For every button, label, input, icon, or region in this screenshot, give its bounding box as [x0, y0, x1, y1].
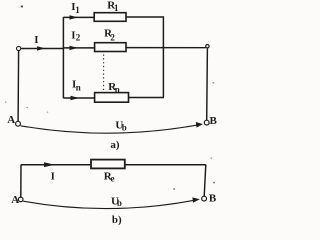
- wire: left vertical bus (diagram a): [62, 17, 64, 98]
- wire: branch 1 left segment with current arrow I1: [63, 15, 94, 19]
- svg-text:A: A: [7, 114, 15, 126]
- label A (diagram b): [11, 194, 19, 206]
- label I (diagram a): [34, 34, 38, 46]
- svg-text:I: I: [51, 170, 55, 182]
- svg-text:I: I: [34, 34, 38, 46]
- wire: branch 1 right segment to right bus: [126, 16, 164, 18]
- label B (diagram b): [209, 193, 217, 205]
- label In: [72, 78, 81, 92]
- label Ub (diagram b): [111, 195, 122, 208]
- wire: top conductor with current arrow I (diagram b): [21, 162, 91, 167]
- wire: left rail from input terminal down to node A: [17, 51, 20, 122]
- wire: left rail down to node A (diagram b): [20, 165, 22, 197]
- label I1: [71, 1, 80, 15]
- scan speck: [27, 107, 29, 108]
- wire: branch n left segment with current arrow In: [63, 96, 94, 100]
- node A (diagram b): [18, 197, 23, 202]
- label B (diagram a): [210, 115, 218, 127]
- wire: input terminal to left bus with current arrow I (diagram a): [21, 46, 64, 50]
- svg-text:e: e: [111, 173, 115, 183]
- resistor Re: [91, 160, 125, 169]
- dotted continuation line between R2 and Rn: [103, 55, 105, 92]
- wire: resistor Re to right corner (diagram b): [125, 164, 206, 166]
- scan speck: [173, 188, 175, 190]
- voltage arc Ub from A to B (diagram a): [21, 122, 203, 133]
- svg-text:2: 2: [76, 33, 81, 43]
- wire: branch 2 right segment through bus to top of node B rail: [126, 47, 206, 49]
- wire: right vertical bus (diagram a): [162, 16, 164, 97]
- node B (diagram a): [204, 120, 209, 125]
- svg-text:b): b): [112, 214, 122, 226]
- wire: right rail from junction down to node B: [206, 48, 209, 120]
- label R2: [104, 28, 115, 43]
- terminal node (diagram a, top-left input): [17, 46, 21, 50]
- scan speck: [213, 182, 215, 184]
- svg-text:B: B: [210, 115, 218, 127]
- svg-text:n: n: [115, 84, 120, 94]
- svg-text:2: 2: [110, 33, 115, 43]
- junction node (diagram a, top of right rail): [206, 45, 209, 48]
- scan speck: [5, 102, 7, 103]
- label A (diagram a): [7, 114, 15, 126]
- label Rn: [108, 81, 120, 94]
- svg-text:b: b: [122, 123, 127, 133]
- wire: branch 2 left segment with current arrow I2: [63, 46, 94, 50]
- label Re: [104, 170, 115, 183]
- resistor R1: [94, 13, 126, 22]
- svg-text:B: B: [209, 193, 217, 205]
- caption a): [110, 139, 120, 151]
- resistor Rn: [95, 93, 129, 103]
- svg-text:A: A: [11, 194, 19, 206]
- wire: branch n right segment to right bus: [129, 97, 165, 99]
- node A (diagram a): [16, 121, 21, 126]
- svg-text:a): a): [110, 139, 120, 151]
- svg-text:b: b: [117, 198, 122, 208]
- label R1: [107, 0, 119, 13]
- caption b): [112, 214, 122, 226]
- label Ub (diagram a): [115, 119, 126, 132]
- scan speck: [21, 6, 23, 8]
- label I2: [71, 29, 80, 42]
- svg-text:1: 1: [114, 3, 119, 13]
- scan speck: [47, 112, 48, 113]
- voltage arc Ub from A to B (diagram b): [23, 197, 200, 208]
- svg-text:1: 1: [75, 5, 80, 15]
- resistor R2: [95, 43, 126, 52]
- node B (diagram b): [202, 196, 207, 201]
- label I (diagram b): [51, 170, 55, 182]
- scan speck: [213, 82, 215, 83]
- wire: right rail down to node B (diagram b): [204, 165, 206, 196]
- svg-text:n: n: [76, 83, 81, 93]
- scan speck: [211, 158, 212, 159]
